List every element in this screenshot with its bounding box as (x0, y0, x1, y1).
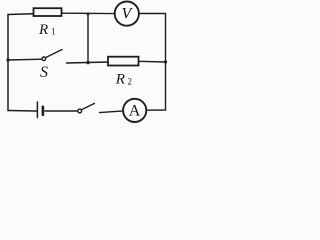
wire voltmeter to top-right corner (139, 14, 166, 63)
svg-text:R: R (115, 71, 125, 87)
svg-text:V: V (122, 6, 134, 23)
wire middle-left to switch (8, 58, 42, 61)
node middle junction (86, 61, 89, 64)
wire right vertical lower (147, 62, 166, 110)
wire R2 to right vertical (139, 60, 166, 63)
battery BT1 (37, 102, 43, 118)
wire left vertical lower (7, 60, 9, 111)
resistor R1 (34, 8, 62, 16)
svg-text:2: 2 (128, 76, 133, 86)
wire switch to R2 (67, 62, 109, 63)
svg-text:S: S (40, 64, 48, 81)
voltmeter U1 V (115, 2, 139, 26)
resistor R2 (108, 57, 139, 66)
svg-text:1: 1 (51, 27, 56, 37)
wire bottom-left to battery (8, 110, 37, 113)
node left junction (6, 58, 9, 61)
label R2 (115, 71, 132, 87)
wire top-left: corner to R1 (8, 14, 34, 60)
ammeter U2 A (123, 99, 146, 122)
node right junction (164, 60, 167, 63)
switch S (42, 57, 46, 61)
svg-text:A: A (129, 103, 141, 120)
wire battery to switch2 (45, 110, 78, 112)
wire switch2 to ammeter (100, 111, 124, 113)
svg-text:R: R (38, 22, 48, 38)
switch S2 (78, 109, 82, 113)
wire R1 to voltmeter (62, 12, 115, 14)
node top junction (87, 13, 90, 16)
wire vertical branch (87, 14, 89, 63)
label R1 (38, 22, 56, 38)
